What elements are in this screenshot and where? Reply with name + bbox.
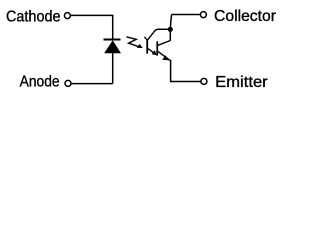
wire collector lead bbox=[170, 15, 171, 41]
terminal collector bbox=[200, 12, 206, 18]
svg-text:Cathode: Cathode bbox=[6, 8, 61, 25]
diode LED cathode bar bbox=[104, 39, 121, 41]
wire anode to LED bbox=[71, 83, 113, 85]
wire collector horizontal bbox=[172, 14, 201, 16]
transistor Q1 emitter arrowhead bbox=[152, 50, 158, 55]
transistor Q2 emitter bbox=[158, 51, 171, 60]
terminal anode bbox=[65, 80, 71, 86]
transistor Q1 collector curve bbox=[147, 29, 170, 40]
wire LED top lead bbox=[112, 15, 114, 39]
transistor Q1 base bar bbox=[146, 40, 148, 54]
transistor Q1 collector barb bbox=[144, 37, 147, 40]
wire LED bottom lead bbox=[112, 53, 114, 84]
diode LED triangle bbox=[104, 40, 121, 53]
transistor Q2 base bar bbox=[156, 41, 158, 55]
svg-text:Emitter: Emitter bbox=[215, 74, 268, 91]
wire emitter lead bbox=[171, 60, 201, 82]
transistor Q2 collector bbox=[158, 41, 170, 46]
light arrowhead bbox=[137, 44, 143, 48]
junction dot bbox=[168, 27, 173, 32]
terminal emitter bbox=[201, 78, 207, 84]
transistor Q2 emitter arrowhead bbox=[162, 55, 168, 60]
wire cathode to LED bbox=[71, 14, 113, 16]
light arrow zigzag bbox=[127, 37, 140, 47]
transistor Q1 emitter bbox=[148, 49, 154, 54]
svg-text:Collector: Collector bbox=[214, 8, 277, 25]
terminal cathode bbox=[64, 13, 70, 19]
svg-text:Anode: Anode bbox=[20, 74, 60, 91]
